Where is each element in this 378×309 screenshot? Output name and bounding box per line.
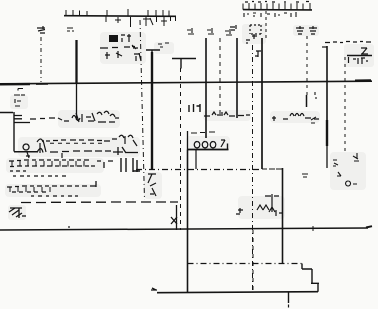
wire V1 dash-dot from crystal [40, 37, 42, 82]
wire row R3 with junction [14, 147, 138, 158]
scan fuzz halos (decorative) [5, 24, 374, 220]
IC box bottom (middle) [188, 131, 229, 150]
wire V14 [282, 168, 284, 263]
wire V16 right solid [322, 46, 327, 168]
wire dash-dot y169 [136, 169, 262, 171]
bus A (top-left connector header) [64, 9, 176, 21]
diode squiggle cluster R1 [72, 111, 119, 122]
label 5 under rail [18, 89, 23, 91]
label above V2 [67, 28, 74, 31]
label 73 [255, 51, 261, 57]
transistor cluster above lower rail [236, 194, 283, 216]
corner wire at V12/V14 top [262, 168, 283, 170]
dotted row R5 [13, 175, 66, 177]
wire V15 dashed [306, 36, 309, 107]
misc marks near rails [132, 25, 236, 49]
component labels row (mid-top trio) [187, 28, 232, 35]
pulse shape / gate top [146, 43, 196, 69]
bottom stub wire [288, 292, 290, 308]
bus B pin labels below [244, 12, 296, 17]
wire V13 dashed short [265, 11, 267, 38]
IC label squiggles 2000 [194, 140, 225, 148]
wire V11 long dash-dot [252, 45, 254, 292]
wire V5 dashed (x~180) [180, 68, 182, 230]
wire stub x196 [195, 150, 197, 169]
dense dashed row R4 [9, 160, 113, 171]
resistor fraction 2/43 [347, 48, 372, 64]
lower horizontal rail (second full-width net) [0, 226, 372, 231]
IC squiggle row (middle) [189, 104, 250, 116]
dash-dot rail above bottom box [188, 263, 303, 265]
wire V5b lower segment [185, 229, 187, 231]
capacitor bars pair [121, 158, 140, 172]
resistor row R2 [23, 135, 137, 158]
left input terminal [0, 95, 30, 152]
squiggle mark near V3 bottom [148, 174, 156, 196]
filled pad near bus A [100, 34, 141, 61]
wire V4 (strong mid vertical) [151, 52, 153, 170]
wire V2 (solid vertical left) [75, 40, 77, 120]
wire V12 solid [262, 38, 285, 169]
dashed row R6 [7, 181, 96, 196]
wire V7 [205, 38, 207, 138]
bus B (top-right connector header) [243, 2, 312, 10]
main horizontal rail (upper full-width net) [0, 80, 372, 84]
X junction mark [171, 205, 177, 230]
specks right-middle [302, 92, 359, 186]
wire V10 dashed bottom [252, 230, 254, 292]
connector hatch symbol bottom-left [9, 208, 26, 218]
step corner right of bottom box [302, 264, 312, 284]
crystal symbol top-left [37, 26, 45, 33]
input box near bus B [246, 25, 261, 44]
long dashed row R7 [21, 201, 178, 204]
dashed label row top right [325, 42, 371, 43]
wire V17 dashed [344, 57, 346, 155]
RC filter row right of middle [272, 114, 319, 122]
wire V8 dashed [219, 38, 221, 115]
wire V6 (box-left vertical to bottom) [187, 150, 189, 293]
wire V9 [236, 38, 238, 118]
wire V3 long dash-dot [140, 20, 145, 200]
bus A pin stubs below line [106, 16, 171, 27]
bottom rail [151, 283, 319, 293]
ground symbols pair (top right) [296, 26, 317, 34]
resistor row R1 dashes [30, 118, 69, 121]
